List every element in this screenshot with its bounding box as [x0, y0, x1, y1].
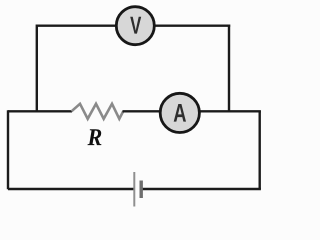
voltmeter U1 (V) — [116, 7, 154, 45]
wire: top horizontal (node between V terminals) — [37, 25, 230, 27]
wire: left outer vertical of battery loop — [7, 110, 9, 189]
battery cell B1 (single cell: long thin + short thick plates) — [134, 172, 141, 207]
wire: bottom horizontal, left segment to battery — [8, 188, 134, 190]
resistor R (zigzag element) — [72, 104, 124, 119]
wire: middle horizontal, left segment to resistor — [8, 110, 72, 112]
wire: right vertical of voltmeter loop — [228, 25, 230, 113]
label R (resistor value label) — [88, 129, 102, 145]
wire: right outer vertical of battery loop — [259, 111, 261, 189]
wire: middle horizontal, right segment through ammeter — [123, 110, 261, 112]
wire: inner-left vertical (taps middle wire up to voltmeter) — [36, 25, 38, 112]
wire: bottom horizontal, right segment from battery — [142, 188, 261, 190]
ammeter U2 (A) — [160, 93, 199, 132]
